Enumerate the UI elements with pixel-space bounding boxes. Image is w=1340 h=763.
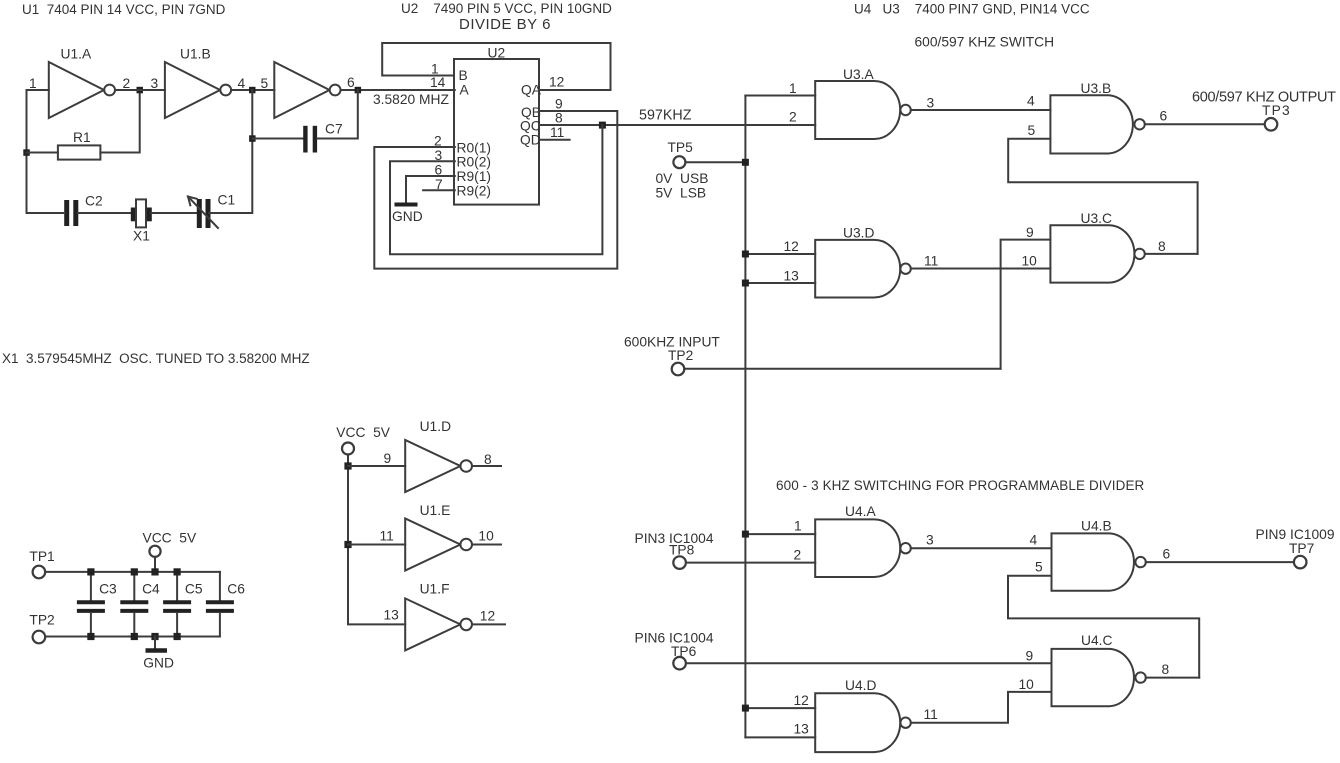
- svg-text:U4.D: U4.D: [845, 678, 876, 693]
- svg-text:U1 7404 PIN 14 VCC, PIN 7GND: U1 7404 PIN 14 VCC, PIN 7GND: [22, 2, 226, 17]
- svg-text:5: 5: [1035, 560, 1043, 575]
- svg-text:7: 7: [435, 177, 443, 192]
- wire U4.B pin 5 feedback from U4.C out: [1008, 576, 1199, 678]
- svg-text:R9(2): R9(2): [457, 184, 492, 199]
- svg-text:8: 8: [1158, 239, 1166, 254]
- wire C2 to X1: [78, 212, 131, 214]
- wire C7 right lead to pin6 node: [318, 90, 358, 139]
- wire bottom left to C2: [27, 212, 65, 214]
- svg-text:9: 9: [555, 97, 563, 112]
- capacitor C7: [303, 126, 307, 153]
- svg-text:U3.B: U3.B: [1081, 81, 1112, 96]
- wire input to U1.A: [27, 90, 49, 213]
- svg-text:U3.C: U3.C: [1081, 211, 1112, 226]
- wire TP5 to bus: [685, 161, 745, 163]
- svg-text:12: 12: [784, 239, 799, 254]
- svg-text:TP5: TP5: [668, 140, 694, 155]
- svg-text:U1.A: U1.A: [61, 47, 92, 62]
- wire X1 to C1: [151, 212, 197, 214]
- node junction pin 13: [742, 280, 749, 287]
- svg-text:600/597 KHZ SWITCH: 600/597 KHZ SWITCH: [915, 35, 1055, 50]
- svg-text:PIN3 IC1004: PIN3 IC1004: [635, 531, 714, 546]
- svg-text:TP1: TP1: [29, 549, 54, 564]
- crystal X1: [131, 208, 136, 222]
- inverter U1.D: [405, 440, 460, 492]
- svg-text:VCC 5V: VCC 5V: [336, 425, 390, 440]
- wire U4.D out to U4.C pin 10: [911, 692, 1052, 723]
- wire QA feedback loop to pin B: [382, 43, 610, 90]
- svg-text:U4.C: U4.C: [1081, 633, 1112, 648]
- node junction left: [23, 149, 30, 156]
- capacitor C5: [176, 572, 178, 600]
- svg-text:9: 9: [384, 451, 392, 466]
- svg-text:2: 2: [794, 548, 802, 563]
- wire vertical bus: [744, 96, 746, 738]
- inverter U1.F: [405, 598, 460, 650]
- wire U3.C pin 9 from 600khz line: [1001, 240, 1051, 369]
- svg-text:10: 10: [1019, 677, 1035, 692]
- svg-text:6: 6: [1163, 547, 1171, 562]
- svg-text:3.5820 MHZ: 3.5820 MHZ: [373, 92, 449, 107]
- svg-text:PIN9 IC1009: PIN9 IC1009: [1256, 527, 1335, 542]
- wire U1.E input: [348, 544, 405, 546]
- svg-text:1: 1: [794, 519, 802, 534]
- svg-text:9: 9: [1026, 649, 1034, 664]
- svg-text:X1: X1: [133, 229, 150, 244]
- svg-text:12: 12: [480, 609, 495, 624]
- svg-text:600 - 3 KHZ SWITCHING FOR PROG: 600 - 3 KHZ SWITCHING FOR PROGRAMMABLE D…: [776, 478, 1145, 493]
- svg-text:3: 3: [151, 76, 159, 91]
- wire U1.E out: [472, 544, 501, 546]
- inverter U1.C: [274, 62, 329, 118]
- svg-text:TP3: TP3: [1262, 103, 1291, 118]
- wire R1 right lead to pin2: [100, 90, 139, 153]
- svg-text:U1.E: U1.E: [420, 503, 451, 518]
- wire R9(1) pin 6: [406, 176, 455, 203]
- wire U3.D out to U3.C pin 10: [911, 268, 1051, 270]
- svg-text:U2 7490 PIN 5 VCC, PIN 10GN: U2 7490 PIN 5 VCC, PIN 10GND: [401, 1, 612, 16]
- svg-text:C2: C2: [85, 194, 103, 209]
- node junction pin6: [355, 87, 362, 94]
- wire U4.A pin 1: [745, 533, 815, 535]
- wire U4.A out to U4.B pin 4: [911, 547, 1052, 549]
- wire QC feedback loop to R0(2) pin 3: [390, 125, 602, 254]
- svg-text:6: 6: [435, 163, 443, 178]
- svg-text:3: 3: [926, 533, 934, 548]
- svg-text:2: 2: [789, 110, 797, 125]
- svg-text:13: 13: [384, 608, 400, 623]
- wire VCC vertical feed: [348, 455, 405, 625]
- wire U3.C out pin 8: [1145, 253, 1198, 255]
- nand U4.C: [1052, 649, 1134, 706]
- svg-text:GND: GND: [143, 656, 174, 671]
- nand U3.D: [815, 240, 900, 298]
- svg-text:C6: C6: [227, 582, 245, 597]
- resistor R1: [58, 145, 101, 159]
- wire U1.A out to U1.B: [115, 89, 165, 91]
- svg-text:U1.F: U1.F: [420, 582, 450, 597]
- wire U1.F out: [472, 623, 505, 625]
- svg-text:5V LSB: 5V LSB: [656, 186, 707, 201]
- svg-text:11: 11: [924, 254, 938, 269]
- wire U1.C out to U2 A: [341, 89, 455, 91]
- svg-text:13: 13: [794, 722, 810, 737]
- wire C1 to right vertical: [209, 90, 252, 213]
- svg-text:14: 14: [430, 75, 446, 90]
- wire U3.D pin 12: [745, 253, 815, 255]
- svg-text:TP7: TP7: [1289, 541, 1314, 556]
- node junction QC feedback: [599, 122, 606, 129]
- wire U3.B pin 5 feedback from U3.C out: [1008, 139, 1197, 254]
- wire C7 left lead: [252, 138, 305, 140]
- inverter U1.B: [165, 62, 220, 118]
- svg-text:9: 9: [1026, 225, 1034, 240]
- svg-text:DIVIDE BY 6: DIVIDE BY 6: [459, 16, 551, 33]
- svg-text:QC: QC: [520, 119, 541, 134]
- wire U4.B out to TP7: [1146, 561, 1294, 563]
- svg-text:11: 11: [380, 529, 394, 544]
- svg-text:4: 4: [238, 76, 246, 91]
- svg-text:6: 6: [1160, 109, 1168, 124]
- wire U1.D out: [472, 465, 501, 467]
- node junction U1.D input: [344, 462, 351, 469]
- svg-text:VCC 5V: VCC 5V: [143, 531, 197, 546]
- svg-text:2: 2: [434, 134, 442, 149]
- node junction pin 12: [742, 251, 749, 258]
- wire U3.A out to U3.B pin 4: [911, 109, 1051, 111]
- wire U3.B out to TP3: [1145, 123, 1265, 125]
- svg-text:3: 3: [435, 148, 443, 163]
- svg-text:U3.D: U3.D: [843, 226, 874, 241]
- svg-text:C3: C3: [99, 582, 117, 597]
- node junction C7 tap: [249, 135, 256, 142]
- svg-text:0V USB: 0V USB: [656, 171, 709, 186]
- wire QB feedback loop to R0(1) pin 2: [374, 111, 617, 269]
- capacitor C1 variable: [197, 199, 202, 228]
- svg-text:R0(1): R0(1): [457, 141, 492, 156]
- wire U3.A pin 1: [745, 95, 815, 97]
- inverter U1.E: [405, 519, 460, 571]
- wire U1.B out to U1.C: [231, 89, 274, 91]
- svg-text:C1: C1: [218, 193, 236, 208]
- nand U4.D: [815, 693, 900, 752]
- wire VCC drop to rail: [154, 557, 156, 572]
- nand U4.A: [815, 519, 900, 577]
- svg-text:U1.B: U1.B: [180, 47, 211, 62]
- wire top rail: [45, 571, 220, 573]
- svg-text:12: 12: [794, 693, 809, 708]
- ic U2 7490 box: [454, 59, 539, 205]
- svg-text:R0(2): R0(2): [457, 155, 492, 170]
- wire R9(2) pin 7 stub: [423, 189, 455, 191]
- svg-text:R9(1): R9(1): [457, 169, 492, 184]
- wire QD stub: [539, 139, 570, 141]
- node junction U1.E input: [344, 541, 351, 548]
- svg-text:1: 1: [789, 81, 797, 96]
- svg-text:GND: GND: [392, 209, 423, 224]
- wire QC output 597KHZ line: [539, 124, 815, 126]
- svg-text:10: 10: [1022, 254, 1038, 269]
- svg-text:8: 8: [484, 452, 492, 467]
- ground GND (cap bank): [154, 637, 156, 649]
- svg-text:C4: C4: [142, 582, 160, 597]
- svg-text:8: 8: [555, 111, 563, 126]
- svg-text:11: 11: [924, 707, 938, 722]
- wire bottom rail: [45, 636, 220, 638]
- capacitor C2: [64, 200, 69, 226]
- svg-text:4: 4: [1027, 94, 1035, 109]
- wire U1.D input: [348, 465, 405, 467]
- inverter U1.A: [49, 62, 104, 118]
- wire bus corner to U4.D pin 13: [745, 736, 815, 738]
- wire TP6 to U4.C pin 9: [686, 662, 1052, 664]
- svg-text:8: 8: [1162, 662, 1170, 677]
- svg-text:A: A: [460, 83, 470, 98]
- wire R1 left lead: [27, 152, 58, 154]
- svg-text:1: 1: [29, 76, 37, 91]
- wire 600khz input line: [684, 368, 1000, 370]
- svg-text:TP2: TP2: [668, 348, 693, 363]
- svg-text:11: 11: [550, 125, 564, 140]
- node junction U4 pin 12: [742, 705, 749, 712]
- node junctions bottom rail: [87, 633, 94, 640]
- nand U4.B: [1052, 533, 1134, 590]
- nand U3.B: [1050, 95, 1132, 153]
- svg-text:5: 5: [261, 76, 269, 91]
- svg-text:10: 10: [478, 529, 494, 544]
- svg-text:C7: C7: [325, 122, 343, 137]
- svg-text:TP6: TP6: [671, 644, 697, 659]
- svg-text:U4 U3 7400 PIN7 GND, PIN1: U4 U3 7400 PIN7 GND, PIN14 VCC: [854, 2, 1090, 17]
- svg-text:6: 6: [347, 75, 355, 90]
- svg-text:4: 4: [1030, 533, 1038, 548]
- node junction pin4/5: [249, 87, 256, 94]
- svg-text:2: 2: [123, 76, 131, 91]
- wire TP8 to U4.A pin 2: [686, 562, 815, 564]
- wire U4.C out pin 8: [1146, 677, 1199, 679]
- nand U3.A: [815, 81, 900, 139]
- ground GND of U2: [395, 203, 418, 207]
- capacitor C6: [219, 572, 221, 600]
- svg-text:13: 13: [784, 269, 800, 284]
- svg-text:B: B: [459, 68, 468, 83]
- svg-text:3: 3: [927, 96, 935, 111]
- svg-text:U1.D: U1.D: [420, 419, 451, 434]
- node junction U4 pin 1: [742, 531, 749, 538]
- svg-text:U4.A: U4.A: [845, 504, 876, 519]
- capacitor C3: [90, 572, 92, 600]
- svg-text:U2: U2: [488, 46, 506, 61]
- svg-text:597KHZ: 597KHZ: [639, 108, 692, 124]
- wire U3.D pin 13: [745, 282, 815, 284]
- node junctions top rail: [87, 568, 94, 575]
- svg-text:X1 3.579545MHZ OSC. TUNED TO: X1 3.579545MHZ OSC. TUNED TO 3.58200 MHZ: [2, 351, 310, 366]
- svg-text:R1: R1: [73, 130, 91, 145]
- capacitor C4: [133, 572, 135, 600]
- node junction TP5: [742, 159, 749, 166]
- svg-text:12: 12: [549, 75, 564, 90]
- svg-text:U3.A: U3.A: [843, 67, 874, 82]
- svg-text:5: 5: [1028, 123, 1036, 138]
- svg-text:TP2: TP2: [29, 613, 54, 628]
- wire U4.D pin 12: [745, 707, 815, 709]
- node junction pin2: [137, 87, 144, 94]
- svg-text:C5: C5: [185, 582, 203, 597]
- nand U3.C: [1050, 225, 1134, 282]
- svg-text:QD: QD: [520, 133, 541, 148]
- svg-text:U4.B: U4.B: [1081, 519, 1112, 534]
